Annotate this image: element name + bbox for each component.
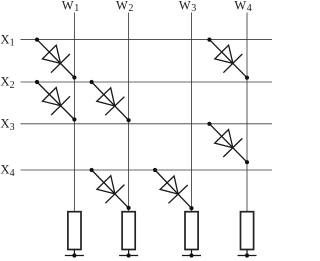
- svg-text:W: W: [116, 0, 128, 13]
- svg-text:2: 2: [10, 80, 15, 91]
- wire column W2: [128, 13, 130, 212]
- wire row X1: [21, 39, 273, 41]
- node label X3: [1, 117, 15, 133]
- node label X2: [1, 75, 15, 91]
- svg-text:3: 3: [10, 122, 15, 133]
- svg-text:W: W: [179, 0, 191, 13]
- ground terminal under R2: [119, 253, 138, 257]
- wire column W4: [246, 13, 248, 212]
- diode D5 (X3 to W4): [207, 122, 249, 165]
- svg-text:4: 4: [10, 168, 15, 179]
- resistor R1 (on W1): [68, 212, 81, 256]
- node label X4: [1, 163, 15, 179]
- node label W1: [62, 0, 79, 14]
- resistor R3 (on W3): [185, 212, 198, 256]
- svg-text:X: X: [1, 117, 10, 131]
- svg-text:1: 1: [74, 3, 79, 14]
- svg-text:3: 3: [191, 3, 196, 14]
- ground terminal under R3: [182, 253, 201, 257]
- svg-text:X: X: [1, 32, 10, 46]
- svg-text:1: 1: [10, 38, 15, 49]
- wire row X4: [21, 169, 273, 171]
- diode D6 (X4 to W2): [90, 168, 131, 210]
- node label W2: [116, 0, 133, 14]
- svg-text:W: W: [234, 0, 246, 13]
- diode D1 (X1 to W1): [35, 38, 77, 80]
- diode D3 (X2 to W1): [35, 80, 77, 122]
- diode D4 (X2 to W2): [90, 80, 131, 122]
- svg-text:X: X: [1, 163, 10, 177]
- wire row X3: [21, 123, 273, 125]
- wire column W1: [73, 13, 75, 212]
- node label X1: [1, 32, 15, 48]
- svg-text:4: 4: [247, 3, 252, 14]
- resistor R2 (on W2): [122, 212, 135, 256]
- svg-text:W: W: [62, 0, 74, 13]
- resistor R4 (on W4): [241, 212, 254, 256]
- svg-text:2: 2: [128, 3, 133, 14]
- wire row X2: [21, 81, 273, 83]
- node label W4: [234, 0, 251, 14]
- svg-text:X: X: [1, 75, 10, 89]
- diode D2 (X1 to W4): [207, 38, 249, 80]
- ground terminal under R1: [65, 253, 84, 257]
- ground terminal under R4: [238, 253, 257, 257]
- diode D7 (X4 to W3): [153, 168, 194, 210]
- wire column W3: [191, 13, 193, 212]
- node label W3: [179, 0, 196, 14]
